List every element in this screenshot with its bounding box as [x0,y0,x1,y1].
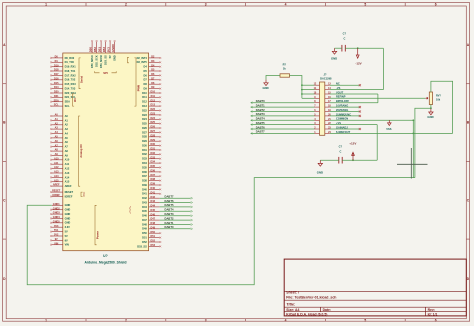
wire from U1 GND pin around the sheet bottom [27,178,415,285]
svg-text:D16: D16 [54,77,59,80]
svg-text:D30: D30 [142,144,147,148]
svg-text:GND: GND [65,203,71,207]
svg-text:A4: A4 [65,131,69,135]
svg-text:D26: D26 [142,126,147,130]
svg-text:D25: D25 [151,121,156,124]
svg-text:D41: D41 [142,192,147,196]
svg-text:A2: A2 [65,123,69,127]
svg-text:D10: D10 [151,91,156,94]
svg-text:D23: D23 [142,113,147,117]
svg-text:D38: D38 [151,178,156,181]
svg-text:1: 1 [45,3,47,7]
svg-text:A14: A14 [54,175,59,178]
title block text [286,291,437,317]
svg-text:A10: A10 [65,158,70,162]
svg-text:misc: misc [84,191,86,197]
svg-text:DABT5: DABT5 [256,121,265,125]
svg-text:GND: GND [65,216,71,220]
svg-text:Sheet: /: Sheet: / [286,291,299,295]
svg-text:D5: D5 [144,69,148,73]
svg-text:D33: D33 [142,157,147,161]
wire C1 right to -VS drop [345,47,383,49]
svg-text:5V: 5V [65,234,68,238]
U1 power group bracket [95,205,100,245]
svg-text:VIN: VIN [65,243,69,247]
svg-text:A1: A1 [65,118,69,122]
svg-text:D7: D7 [144,78,148,82]
wires DABT0..DABT7 into J1 left pins with global labels [251,99,315,134]
svg-text:D53: D53 [151,244,156,247]
svg-text:D29: D29 [151,139,156,142]
svg-text:A7: A7 [65,145,69,149]
svg-text:DABT2: DABT2 [165,216,174,220]
svg-text:PWM: PWM [137,84,141,91]
wire C2 right to +VS riser [342,159,377,161]
svg-text:9V: 9V [65,238,68,242]
svg-text:GND3: GND3 [53,212,60,215]
svg-text:D0_RX0: D0_RX0 [65,56,75,60]
svg-text:A14: A14 [65,175,70,179]
wires from R1 net to J1 control pins [302,85,315,98]
svg-text:D51: D51 [142,236,147,240]
wire R1 right to DAC control pins [290,76,302,99]
svg-text:DABT0: DABT0 [256,99,265,103]
svg-text:D24: D24 [151,117,156,120]
svg-text:D13: D13 [142,104,147,108]
svg-text:D41: D41 [151,191,156,194]
wire -VS up to C1 row [382,48,384,89]
svg-text:9V: 9V [55,238,58,241]
svg-text:D49: D49 [151,226,156,229]
svg-text:D25: D25 [142,122,147,126]
svg-text:I2C: I2C [73,98,77,102]
svg-text:D51: D51 [98,47,102,53]
svg-text:SUMMJUNC: SUMMJUNC [336,112,351,116]
svg-text:A12: A12 [65,167,70,171]
svg-text:D53_SS: D53_SS [137,244,147,248]
svg-text:D32: D32 [151,152,156,155]
svg-text:D45: D45 [151,209,156,212]
svg-text:6: 6 [435,3,437,7]
svg-text:D9: D9 [144,87,148,91]
svg-text:RV?: RV? [436,94,441,97]
svg-text:D37: D37 [151,174,156,177]
svg-text:D2_INT4: D2_INT4 [137,56,148,60]
svg-text:D18_TX1: D18_TX1 [65,69,76,73]
svg-text:Analog I/O: Analog I/O [79,144,83,157]
trimmer potentiometer RV1 [426,92,442,105]
svg-text:-VS: -VS [336,86,341,90]
svg-text:D48: D48 [151,222,156,225]
U1 left pins: serial group [50,56,76,109]
svg-text:SCL: SCL [54,104,59,107]
svg-text:A11: A11 [54,162,59,165]
svg-text:D22: D22 [142,108,147,112]
svg-text:GND: GND [65,208,71,212]
svg-text:D43: D43 [142,200,147,204]
capacitor C1 [342,31,347,51]
svg-text:SPI: SPI [103,71,108,75]
svg-text:3.3V: 3.3V [65,225,71,229]
svg-text:Title:: Title: [286,302,296,306]
svg-text:SDA: SDA [54,99,59,102]
svg-text:D34: D34 [151,161,156,164]
svg-text:GND4: GND4 [53,216,60,219]
wire C1 left to ground [335,47,342,49]
svg-text:D12: D12 [142,100,147,104]
svg-text:RESET: RESET [65,190,74,194]
svg-text:DABT7: DABT7 [165,195,174,199]
svg-text:D14_TX3: D14_TX3 [65,87,76,91]
svg-text:D19_RX1: D19_RX1 [65,65,77,69]
svg-text:AREF: AREF [53,184,60,187]
svg-text:D52: D52 [142,240,147,244]
svg-text:C?: C? [343,31,347,35]
svg-text:D29: D29 [142,139,147,143]
svg-text:D11: D11 [151,95,156,98]
svg-text:D30: D30 [151,143,156,146]
svg-text:D16_TX2: D16_TX2 [65,78,76,82]
U1 INT group bracket D2-D3 [128,57,129,63]
svg-text:D38: D38 [142,179,147,183]
svg-text:5V: 5V [108,55,112,58]
svg-text:5V: 5V [65,230,68,234]
svg-text:D40: D40 [151,187,156,190]
svg-text:C?: C? [339,145,343,149]
svg-text:VOUT: VOUT [336,90,344,94]
svg-text:D22: D22 [151,108,156,111]
svg-text:DABT3: DABT3 [165,212,174,216]
svg-text:D35: D35 [142,165,147,169]
svg-text:D45: D45 [142,209,147,213]
svg-text:AREF: AREF [65,184,72,188]
wire R1 left to GND [266,76,280,80]
svg-text:4: 4 [285,318,287,322]
svg-text:D26: D26 [151,126,156,129]
svg-text:D44: D44 [142,205,147,209]
svg-text:+12V: +12V [349,142,356,146]
graphic cross mark [397,148,428,179]
svg-text:5V1: 5V1 [54,229,59,232]
svg-text:D23: D23 [151,113,156,116]
svg-text:2: 2 [125,3,127,7]
svg-text:A0: A0 [65,114,69,118]
junctions on R1 net at J1 control pins [301,84,303,95]
svg-text:GND: GND [427,115,433,119]
svg-text:D49: D49 [142,227,147,231]
svg-text:D34: D34 [142,161,147,165]
svg-text:D14: D14 [54,86,59,89]
svg-text:D53_SS: D53_SS [104,55,108,65]
power -12V [355,48,361,65]
frame row ticks and labels [3,43,470,281]
U1 right pins: PWM group D2-D13 [137,56,162,109]
svg-text:5V2: 5V2 [54,234,59,237]
svg-text:D27: D27 [142,130,147,134]
svg-text:6.3REFOUT: 6.3REFOUT [336,130,351,134]
svg-text:GND5: GND5 [53,220,60,223]
svg-text:DABT6: DABT6 [165,199,174,203]
svg-text:DABT0: DABT0 [165,225,174,229]
svg-text:GND: GND [65,212,71,216]
J1 left pins with numbers [314,83,320,134]
U1 left pins: misc group [50,190,73,199]
svg-text:20VRANG: 20VRANG [336,108,348,112]
svg-text:A8: A8 [65,149,69,153]
svg-text:+VS: +VS [336,121,341,125]
svg-text:D20_SDA: D20_SDA [65,91,77,95]
U1 analog group bracket [79,116,84,186]
svg-text:D15: D15 [54,82,59,85]
svg-text:GND: GND [262,86,268,90]
svg-text:D33: D33 [151,156,156,159]
svg-text:D11: D11 [142,95,147,99]
svg-text:D12: D12 [151,99,156,102]
svg-text:A3: A3 [65,127,69,131]
U1 I2C group bracket [73,94,78,106]
wire RV1 top to 6.3REFOUT [431,81,453,133]
svg-text:D46: D46 [142,214,147,218]
resistor R1 [280,63,290,78]
svg-text:BIPOLOFF: BIPOLOFF [336,99,350,103]
svg-text:D18: D18 [54,69,59,72]
svg-text:10k: 10k [436,99,441,102]
svg-text:D53: D53 [102,47,106,53]
U1 PWM sub bracket D44-D46 [130,206,131,213]
svg-text:Rev:: Rev: [428,308,435,312]
svg-text:DABT1: DABT1 [256,103,265,107]
svg-text:D10: D10 [142,91,147,95]
svg-text:J?: J? [323,72,326,76]
svg-text:D20: D20 [54,91,59,94]
svg-text:A5: A5 [65,136,69,140]
svg-text:Date:: Date: [323,308,331,312]
svg-text:6: 6 [435,318,437,322]
DAC J1 body [320,82,325,135]
svg-text:D19: D19 [54,64,59,67]
svg-text:10VRANG: 10VRANG [336,104,348,108]
svg-text:4: 4 [285,3,287,7]
svg-text:D1_TX0: D1_TX0 [65,60,75,64]
svg-text:A9: A9 [65,153,69,157]
svg-text:D37: D37 [142,174,147,178]
svg-text:D21: D21 [54,95,59,98]
svg-text:D8: D8 [144,82,148,86]
svg-text:A13: A13 [65,171,70,175]
svg-text:SCL: SCL [65,104,71,108]
svg-text:DAC1298: DAC1298 [320,76,332,80]
svg-text:5V3: 5V3 [107,47,111,53]
svg-text:D13: D13 [151,104,156,107]
svg-text:D39: D39 [151,183,156,186]
svg-text:R?: R? [283,63,287,67]
svg-text:A10: A10 [54,157,59,160]
svg-text:C: C [339,149,341,153]
svg-text:-12V: -12V [355,62,361,66]
svg-text:1: 1 [45,318,47,322]
svg-text:GND: GND [113,55,117,61]
svg-text:Size: A4: Size: A4 [286,308,299,312]
svg-text:DABT6: DABT6 [256,125,265,129]
wire VOUT to BIPOLOFF jumper [377,94,379,103]
svg-text:D28: D28 [142,135,147,139]
power +12V [349,142,356,161]
svg-text:D39: D39 [142,183,147,187]
ground below R1 [264,80,268,86]
wire COMMON down to bottom rail [412,119,414,177]
svg-text:D40: D40 [142,187,147,191]
svg-text:D52_SCK: D52_SCK [95,55,99,67]
U1 left pins: analog group [50,114,72,188]
U1 misc group bracket [81,191,86,197]
svg-text:3: 3 [205,318,207,322]
svg-text:U?: U? [103,254,108,258]
svg-text:D48: D48 [142,222,147,226]
svg-text:KiCad E.D.A. kicad (6.0.5): KiCad E.D.A. kicad (6.0.5) [286,312,327,316]
svg-text:IOREF: IOREF [52,194,60,197]
svg-text:DABT4: DABT4 [256,117,265,121]
svg-text:D6: D6 [144,73,148,77]
wires DABT7..DABT0 from U1 right pins with global labels [160,195,193,230]
svg-text:GND8: GND8 [111,44,115,52]
svg-text:RESET: RESET [52,190,61,193]
svg-text:A13: A13 [54,171,59,174]
J1 right pins with numbers [325,83,332,134]
svg-text:GND: GND [317,170,323,174]
U1 left pins: power group [50,203,70,247]
svg-text:D15_RX3: D15_RX3 [65,82,77,86]
svg-text:A6: A6 [65,140,69,144]
svg-text:GND1: GND1 [53,203,60,206]
svg-text:SDA: SDA [65,100,71,104]
svg-text:D50: D50 [89,47,93,53]
svg-text:COMMON: COMMON [336,117,348,121]
svg-text:D35: D35 [151,165,156,168]
op board: Arduino Mega2560 shield body U? [63,53,149,251]
svg-text:D17_RX2: D17_RX2 [65,73,77,77]
U1 PWM group bracket [134,58,140,106]
svg-text:A11: A11 [65,162,70,166]
ground at RV1 [429,109,433,115]
svg-text:2: 2 [125,318,127,322]
svg-text:DABT3: DABT3 [256,112,265,116]
svg-text:D47: D47 [151,218,156,221]
svg-text:D52: D52 [151,240,156,243]
svg-text:3: 3 [205,3,207,7]
svg-text:D44: D44 [151,205,156,208]
svg-text:D46: D46 [151,213,156,216]
capacitor C2 [339,145,343,164]
svg-text:Id: 1/1: Id: 1/1 [428,312,438,316]
svg-text:A15: A15 [54,179,59,182]
svg-text:DABT7: DABT7 [256,130,265,134]
svg-text:D42: D42 [151,196,156,199]
svg-text:VIN: VIN [54,242,58,245]
svg-text:D32: D32 [142,152,147,156]
svg-text:GND: GND [65,221,71,225]
svg-text:D50_MISO: D50_MISO [90,55,94,68]
svg-text:DABT1: DABT1 [165,221,174,225]
svg-text:D43: D43 [151,200,156,203]
svg-text:File: TestBenVer-01.kicad_sch: File: TestBenVer-01.kicad_sch [286,295,336,299]
U1 right pins: digital D22-D53 [137,108,161,248]
svg-text:GND: GND [331,57,337,61]
U1 SPI group bracket [95,71,117,75]
power flag VSS on COMMON wire [386,120,391,131]
svg-text:A15: A15 [65,180,70,184]
svg-text:DABT4: DABT4 [165,208,174,212]
svg-text:D50: D50 [142,231,147,235]
svg-text:GAINADJ: GAINADJ [336,125,348,129]
svg-text:VSS: VSS [386,127,391,131]
U1 top pins: SPI header [89,40,117,68]
svg-text:D36: D36 [142,170,147,174]
svg-text:REFINP: REFINP [336,95,346,99]
svg-text:D28: D28 [151,134,156,137]
unconnected wire end marks [359,84,361,130]
svg-text:D24: D24 [142,117,147,121]
svg-text:NC: NC [336,82,340,86]
svg-text:D31: D31 [142,148,147,152]
svg-text:Power: Power [96,231,100,239]
svg-text:D52: D52 [93,47,97,53]
J1 right side net wires with labels [330,82,453,134]
svg-text:D4: D4 [144,65,148,69]
svg-text:5: 5 [364,3,366,7]
svg-text:D47: D47 [142,218,147,222]
svg-text:D3_INT5: D3_INT5 [137,60,148,64]
ground at C2 [318,160,322,166]
ground at C1 [332,48,336,54]
title block [284,259,466,316]
svg-text:D31: D31 [151,148,156,151]
wire +VS down to C2 row [376,125,378,161]
svg-text:D36: D36 [151,170,156,173]
svg-text:3V3: 3V3 [54,225,59,228]
svg-text:IOREF: IOREF [65,194,73,198]
svg-text:C: C [343,36,345,40]
svg-text:Serial: Serial [80,76,84,84]
svg-text:D50: D50 [151,231,156,234]
svg-text:DABT2: DABT2 [256,108,265,112]
svg-text:D17: D17 [54,73,59,76]
wire C2 left to ground [320,159,339,161]
svg-text:D51: D51 [151,235,156,238]
svg-text:DABT5: DABT5 [165,203,174,207]
U1 serial group bracket [79,58,84,89]
svg-text:D42: D42 [142,196,147,200]
svg-text:5: 5 [364,318,366,322]
svg-text:D51_MOSI: D51_MOSI [99,55,103,68]
wire RV1 bottom node [415,105,432,178]
svg-text:Arduino_Mega2560_Shield: Arduino_Mega2560_Shield [85,260,127,264]
svg-text:D27: D27 [151,130,156,133]
svg-text:GND2: GND2 [53,207,60,210]
svg-text:A12: A12 [54,166,59,169]
